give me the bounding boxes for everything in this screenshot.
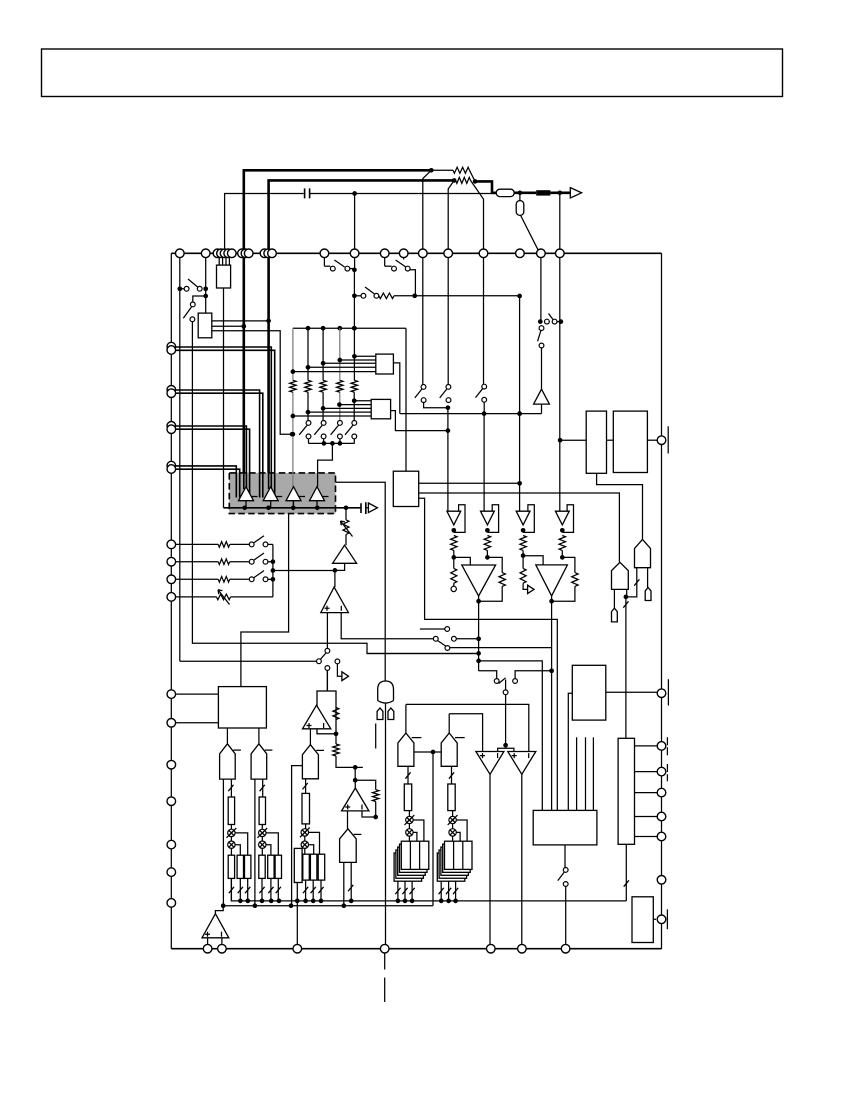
switch S5 under x340 bbox=[338, 421, 343, 426]
head amp A3 triangle bbox=[286, 487, 301, 501]
wire: y296 playback line bbox=[354, 295, 361, 297]
wire: bead to arrow bbox=[550, 192, 570, 195]
wire: thick jog to output line bbox=[475, 181, 496, 192]
cells triple at x258.8 bbox=[259, 855, 265, 878]
switch S14 bbox=[483, 253, 485, 384]
wire: PB1 left tail to crystal bbox=[613, 589, 615, 608]
level cell N at x231.4 bbox=[228, 797, 234, 825]
block U7 bbox=[613, 411, 647, 472]
wire: T7 base stem to P4 bbox=[309, 729, 311, 745]
block U6 bbox=[586, 411, 606, 473]
switch S16 vertical bbox=[539, 326, 544, 331]
resistor c1 lower bbox=[451, 568, 457, 583]
wire: pin x403.7 stub bbox=[403, 253, 405, 259]
wire: bell feed from head box bbox=[336, 482, 386, 681]
head amp A4 triangle bbox=[310, 487, 325, 501]
wire: U4 left input pin y723.3 bbox=[171, 722, 218, 724]
block U11 (reference) bbox=[632, 897, 653, 943]
junction dot head-out bbox=[518, 191, 523, 196]
wire: U11 to pin bbox=[653, 918, 656, 920]
wire: eq taps inside head box bbox=[317, 472, 319, 487]
wire: P_a top line to right amp minus bbox=[406, 704, 529, 751]
arrow: output terminal bbox=[570, 188, 581, 198]
cells triple at x228.2 bbox=[228, 855, 234, 878]
resistor R7b on x354.2 bbox=[351, 380, 357, 392]
wire: S13b riser bbox=[408, 270, 416, 296]
op-amp T8 (up) bbox=[342, 788, 369, 811]
wire: T12 output jog to bus2 bbox=[215, 906, 223, 914]
oscillator X1 (bell) bbox=[378, 681, 394, 701]
wire: PB2 right tail to crystal bbox=[647, 568, 649, 588]
pin column left (head pins doubled) bbox=[167, 342, 176, 351]
head amp A1 triangle bbox=[239, 487, 254, 501]
wire: head pin pair B y390-393 thick L bbox=[171, 390, 259, 498]
wire: U5 out3 big L to B4 bbox=[419, 498, 558, 810]
wire: P3 sense tail to bus2 bbox=[343, 862, 345, 905]
wire: head pin pair D y466-469 thick L bbox=[171, 466, 236, 498]
wire: lamp B taps bbox=[456, 820, 467, 841]
switch S4 under x323 bbox=[321, 421, 326, 426]
junction dot thick node bbox=[473, 179, 478, 184]
wire: rec-level tap to node bbox=[273, 570, 335, 572]
output amp TC2 (down) bbox=[508, 752, 536, 775]
switch S9 bbox=[249, 542, 254, 547]
wire: node A drop to rail pin bbox=[354, 194, 356, 254]
wire: c2 node to TB1 fb bbox=[485, 555, 490, 560]
buffer stage triangle at x562.3 bbox=[555, 511, 569, 525]
wire: PB1 right tail to node bbox=[626, 589, 628, 597]
junction dot W2 bbox=[452, 178, 457, 183]
driver P_a pentagon bbox=[398, 733, 414, 766]
wire: drop from thick line to pin x559.8 bbox=[559, 193, 561, 254]
crystal leg 1 bbox=[377, 708, 383, 720]
junction dot W1 bbox=[429, 168, 434, 173]
wire: U8 right to pin bbox=[606, 691, 657, 693]
block U8 bbox=[572, 665, 606, 720]
switch S18 headphone select bbox=[479, 671, 497, 679]
resistor chain upper x487.4 bbox=[484, 536, 490, 551]
driver P3 pentagon bbox=[340, 829, 357, 863]
resistor R1 (top, series) bbox=[431, 169, 453, 171]
wire: mute line to TB1 output bbox=[367, 653, 476, 655]
lamp ⊗ pair B bbox=[452, 811, 454, 817]
wire: thick record line W1 from pin x243.8 bbox=[244, 170, 431, 253]
arrow: head-amp monitor out bbox=[368, 503, 377, 513]
resistor R4 on x292.9 bbox=[290, 380, 296, 392]
switch S11 bbox=[249, 577, 254, 582]
driver P_b pentagon bbox=[441, 733, 457, 766]
wire: cell stems x228.2 bbox=[230, 878, 232, 901]
array LR_B layered cells bbox=[437, 853, 465, 881]
switch S15 row bbox=[545, 319, 550, 324]
wire: eq rail x339.8 (gray) bbox=[339, 328, 341, 380]
driver PB1 pentagon bbox=[612, 562, 629, 589]
wire: U3 output staircase to c1 input bbox=[391, 411, 448, 431]
resistor R2 (second series) bbox=[456, 177, 471, 183]
wire: T8 fb top link bbox=[355, 780, 376, 790]
lamp pair ch3 bbox=[305, 824, 307, 829]
IC outline: right edge bbox=[661, 253, 663, 948]
driver P4 pentagon bbox=[302, 745, 318, 779]
wire: U9 pin stubs bbox=[635, 745, 658, 747]
cells ch3 (four) bbox=[294, 848, 302, 882]
head amp A2 gain tick bbox=[276, 496, 283, 498]
switch SA at pin 324.4 bbox=[323, 253, 325, 266]
wire: TB2 output long bbox=[551, 596, 553, 811]
wire: P4 drive tail with skip bbox=[305, 779, 307, 794]
wire: U5 out2 long to PB1 bbox=[419, 493, 620, 562]
level cell NR_b bbox=[448, 784, 455, 811]
buffer stage triangle at x453.8 bbox=[447, 511, 461, 525]
level cell N at x262.3 bbox=[259, 797, 265, 825]
wire: LR_B stems bbox=[440, 881, 442, 901]
resistor R12 bbox=[333, 744, 339, 756]
wire: bus1 (bias) bbox=[231, 878, 626, 901]
pin column right bbox=[657, 436, 666, 445]
driver P2 pentagon bbox=[251, 744, 267, 779]
IC outline: left edge bbox=[170, 253, 172, 948]
wire: R1 out diagonal to thick node bbox=[470, 170, 476, 181]
rheostat VR2 bbox=[216, 594, 230, 600]
wire: bell center line to bottom pin bbox=[385, 703, 387, 949]
switch S2 vertical bbox=[193, 296, 206, 302]
inductor L1 (horizontal capsule) bbox=[496, 189, 514, 196]
wire: P_a tail w/ skip bbox=[407, 766, 409, 784]
wire: switch feed x540.9 bbox=[540, 253, 542, 321]
wire: staple to power pair inputs bbox=[498, 748, 514, 751]
wire: P3 drive tail with skip bbox=[350, 862, 352, 901]
wire: pin y596.9 feed bbox=[171, 596, 216, 598]
wire: T8 plus stem to P3 bbox=[347, 811, 349, 829]
wire: U7 to pin bbox=[647, 439, 657, 441]
wire: LR_A stems bbox=[397, 881, 399, 901]
block U0 (input select under pin cluster) bbox=[217, 265, 231, 288]
wire: lamp taps ch3 bbox=[309, 832, 320, 854]
wire: P1 drive tail with skip bbox=[230, 779, 232, 797]
switch S7 feed from pin drop bbox=[180, 660, 317, 662]
amp T7 with loop bbox=[317, 691, 336, 734]
wire: eq left rail x292.9 (gray) bbox=[292, 328, 294, 380]
wire: P_b tail w/ skip bbox=[451, 766, 453, 784]
wire: c1 node to TB1 bbox=[451, 555, 456, 560]
title block frame bbox=[42, 49, 783, 97]
wire: pin2 drop x179.8 bbox=[179, 253, 181, 661]
wire: eq box top edge bbox=[293, 327, 406, 329]
wire: P_a P_b link bbox=[414, 751, 441, 753]
wire: T6 minus stem to switch row bbox=[341, 613, 433, 639]
resistor R16 TB2 feedback bbox=[572, 573, 578, 587]
wire: head pin pair A y347-350 thick L bbox=[171, 347, 271, 498]
wire: U0 stems from pins bbox=[219, 257, 229, 265]
wire: U9 bottom w/ skip to bus1 bbox=[625, 844, 627, 901]
wire: lamp taps x262.3 bbox=[266, 833, 278, 855]
crystal Y2 bbox=[645, 588, 651, 601]
wire: c1 input drop bbox=[447, 408, 449, 513]
wire: U2 fan inputs bbox=[354, 355, 375, 357]
wire: loop around buffer x487.4 bbox=[487, 505, 498, 533]
wire: U4 left input pin y694.1 bbox=[171, 693, 218, 695]
wire: switch-bank common vertical bbox=[272, 544, 274, 597]
switch S10 bbox=[249, 559, 254, 564]
switch S17 with resistor bbox=[361, 293, 366, 298]
switch S19 under U10 bbox=[564, 845, 566, 868]
wire: c2 input drop bbox=[483, 414, 485, 513]
resistor R10 bbox=[218, 577, 230, 583]
output amp TC1 (down) bbox=[476, 752, 504, 775]
IC outline: top rail bbox=[171, 252, 661, 254]
resistor R9 bbox=[218, 559, 230, 565]
wire: T8 minus to fb bottom bbox=[362, 811, 376, 817]
wire: U0 tail down to preamp bus bbox=[223, 288, 225, 508]
wire: P2 drive tail with skip bbox=[262, 779, 264, 797]
resistor R5 on x308 bbox=[305, 380, 311, 392]
terminal circle c1 bbox=[451, 586, 456, 591]
wire: U6 bottom to PB2 bbox=[597, 473, 643, 539]
lamp pair at x231.4 bbox=[230, 825, 232, 830]
wire: TB1 output bbox=[478, 596, 480, 671]
wire: TC1 output to pin bbox=[489, 774, 491, 948]
wire: lamp A taps bbox=[413, 820, 424, 841]
wire: thick drop pin x243.8 to head-amp bbox=[243, 253, 246, 489]
switch S8 row bbox=[433, 636, 438, 641]
wire: T12 input stems bbox=[207, 938, 209, 949]
wire: A1 base stem bbox=[245, 501, 247, 508]
switch S6 under x354 bbox=[352, 421, 357, 426]
power amp TB1 (down) bbox=[462, 565, 496, 596]
junction dot x559.8 bbox=[558, 191, 563, 196]
wire: T7 fb resistor chain down bbox=[335, 734, 337, 744]
wire: A3 base stem bbox=[293, 501, 295, 508]
wire: U2 output to switch bus bbox=[393, 363, 399, 414]
wire: bus tap down to VR bbox=[345, 508, 347, 520]
wire: S2 out long run to lower mixer bbox=[192, 322, 476, 654]
wire: U6-U7 link bbox=[607, 439, 614, 441]
wire: node down w/ skip to divider bbox=[625, 597, 627, 738]
wire: ch3 cell stems bbox=[296, 883, 298, 949]
wire: head pin pair C y426-429 thick L bbox=[171, 426, 246, 490]
level cell N3 bbox=[302, 793, 310, 824]
pin row top bbox=[176, 249, 185, 258]
wire: U4 out stem 2 bbox=[258, 728, 260, 744]
wire: U1 out3 long hook bbox=[212, 331, 291, 434]
wire: c4 node to TB2 fb bbox=[560, 555, 565, 560]
block U5 (detector) bbox=[393, 471, 418, 506]
wire: below-rail stub (broken) bbox=[384, 953, 386, 1002]
wire: loop around buffer x562.3 bbox=[562, 505, 573, 533]
level cell NR_a bbox=[404, 784, 411, 811]
wire: cell stems x258.8 bbox=[261, 878, 263, 901]
wire: P1 sense tail to bus2 bbox=[222, 779, 224, 906]
IC outline: bottom rail bbox=[171, 948, 661, 950]
switch S1 row y288.8 bbox=[177, 286, 182, 291]
head amp A1 gain tick bbox=[251, 496, 258, 498]
resistor R6 on x323.1 bbox=[320, 380, 326, 392]
buffer stage triangle at x523.1 bbox=[516, 511, 530, 525]
wire: bus2 (signal return) bbox=[223, 905, 433, 907]
wire: R12 out to T8 node bbox=[336, 756, 363, 767]
wire: W2 branch diagonal to pin x448.2 bbox=[448, 180, 454, 253]
wire: U4 top input via jog bbox=[241, 514, 289, 687]
mux U2 upper fan block bbox=[376, 354, 394, 374]
block U4 (processor) bbox=[218, 687, 266, 728]
op-amp T12 (bottom left) bbox=[202, 914, 229, 938]
wire: U1 out2 bbox=[212, 325, 244, 327]
wire: thick bundle inside head box bbox=[236, 472, 274, 498]
head amp A3 gain tick bbox=[299, 496, 306, 498]
capacitor C2 after head bus bbox=[361, 502, 366, 514]
resistor R8 bbox=[218, 542, 230, 548]
resistor R3 (vertical capsule to pin) bbox=[516, 201, 524, 216]
wire: A4 base stem bbox=[316, 501, 318, 508]
wire: eq rail x354.2 from rail pin bbox=[354, 253, 356, 269]
wire: R3 diagonal to rail pin bbox=[521, 215, 539, 250]
wire: thick record line W2 from pin x268.6 bbox=[269, 180, 455, 253]
wire: VR1 to buffer T5 bbox=[345, 535, 347, 546]
wire: S18 common to node bbox=[505, 695, 507, 746]
wire: eq right rail into U5 bbox=[405, 328, 407, 471]
wire: loop around buffer x523.1 bbox=[523, 505, 534, 533]
wire: U4 out stem 1 bbox=[226, 728, 228, 744]
wire: level pin feed 3 bbox=[171, 578, 218, 580]
wire: S8 mid throw row to TB2 output bbox=[450, 647, 552, 649]
wire: S16 to buffer T11 bbox=[541, 348, 543, 389]
wire: U5 out1 to x519.6 bbox=[419, 482, 520, 484]
head amp A2 triangle bbox=[263, 487, 278, 501]
wire: T7 stem from S7 switch bbox=[326, 670, 328, 691]
wire: head-amp output bus bbox=[224, 507, 361, 509]
op-amp T6 bbox=[321, 587, 349, 613]
switch SB at pin 384.7 bbox=[384, 253, 386, 266]
wire: PB2 left tail w/ skip to node bbox=[626, 568, 637, 597]
ferrite bead FB1 (solid) bbox=[536, 190, 550, 195]
resistor R13 (T8 feedback) bbox=[373, 790, 379, 802]
wire: lamp taps x231.4 bbox=[235, 833, 248, 855]
driver PB2 pentagon bbox=[635, 539, 651, 567]
driver P1 pentagon bbox=[220, 744, 236, 779]
wire: U1 out1 bbox=[212, 320, 269, 322]
lamp pair at x262.3 bbox=[261, 825, 263, 830]
crystal leg 2 bbox=[388, 708, 394, 720]
buffer stage triangle at x487.4 bbox=[481, 511, 495, 525]
wire: T11 out to mix bus bbox=[541, 404, 543, 414]
wire: cap output to node A bbox=[310, 193, 497, 195]
switch S12 top right pair bbox=[422, 253, 424, 384]
wire: eq switch bus bbox=[309, 442, 355, 444]
wire: pin3 drop x205.7 into logic rect bbox=[205, 253, 207, 313]
resistor R11 on T7 loop bbox=[333, 708, 339, 720]
switch S13 bbox=[447, 253, 449, 384]
wire: T6 plus stem with switch S7 bbox=[326, 613, 328, 649]
resistor R14 bbox=[379, 293, 394, 299]
wire: U8 bottom stems bbox=[576, 737, 578, 810]
rheostat VR1 (arrow through) bbox=[343, 520, 349, 535]
wire: T5 out to node bbox=[335, 563, 345, 570]
external tick bars right side bbox=[667, 426, 669, 453]
wire: node into op-amp T6 bbox=[334, 570, 336, 587]
wire: level pin feed 2 bbox=[171, 561, 218, 563]
wire: thick drop pin x268.6 to head-amp bbox=[267, 253, 270, 489]
wire: AC-in thin net from pin 17 up and right through coupling cap bbox=[225, 194, 304, 254]
wire: R2 out diagonal down to pin x483.5 bbox=[471, 180, 484, 253]
pin row bottom bbox=[203, 944, 212, 953]
head-amp block (shaded dashed) bbox=[229, 473, 335, 514]
wire: TC2 output to pin bbox=[521, 774, 523, 948]
array LR_A layered cells bbox=[394, 853, 422, 881]
wire: P4 notch to bus2 bbox=[292, 766, 303, 906]
wire: loop around buffer x453.8 bbox=[454, 505, 465, 533]
wire: c3 input drop bbox=[519, 296, 521, 513]
buffer T11 triangle bbox=[534, 389, 550, 404]
wire: S7 monitor stub arrow bbox=[335, 659, 340, 664]
wire: TB1 out to riser x542.3 bbox=[479, 661, 543, 811]
mux U3 lower fan block bbox=[371, 399, 390, 418]
wire: level pin feed 1 bbox=[171, 543, 218, 545]
block U1 (bias select) bbox=[198, 313, 212, 338]
head amp A4 gain tick bbox=[322, 496, 329, 498]
wire: U3 fan inputs bbox=[354, 400, 371, 402]
resistor c3 lower bbox=[520, 568, 526, 583]
wire: A2 base stem bbox=[270, 501, 272, 508]
resistor chain upper x523.1 bbox=[520, 536, 526, 551]
wire: U8 left notch out bbox=[568, 693, 572, 810]
switch S3 under x308 bbox=[306, 421, 311, 426]
wire: eq rail x323.1 bbox=[322, 328, 324, 380]
wire: P_b top line to left amp plus bbox=[449, 714, 482, 752]
stub bar bbox=[375, 724, 377, 749]
wire: c3 node to TB2 bbox=[521, 553, 526, 558]
crystal Y1 bbox=[612, 608, 618, 622]
lamp ⊗ pair A bbox=[408, 811, 410, 817]
node A dot at x354.6 bbox=[352, 191, 357, 196]
wire: x559.8 drop long bbox=[559, 253, 561, 513]
resistor chain upper x453.8 bbox=[451, 536, 457, 551]
resistor R15 TB1 feedback bbox=[499, 573, 505, 587]
capacitor C1 (series coupling) bbox=[305, 188, 310, 198]
wire: link riser to bus2 bbox=[432, 752, 434, 906]
wire: thick line L1 to bead bbox=[514, 192, 536, 195]
wire: Z link bus to head-amp 4 bbox=[318, 443, 333, 486]
buffer T5 triangle bbox=[333, 545, 357, 563]
power amp TB2 (down) bbox=[536, 565, 568, 596]
wire: open stub row bbox=[420, 628, 445, 630]
wire: W1 branch diagonal to pin x422.8 bbox=[423, 170, 432, 253]
resistor chain upper x562.3 bbox=[559, 536, 565, 551]
wire: P2 sense tail to bus2 bbox=[254, 779, 256, 906]
wire: T8 apex node bbox=[354, 767, 356, 780]
resistor R7 on x339.8 bbox=[337, 380, 343, 392]
wire: mix bus y413.5 bbox=[400, 413, 542, 415]
divider U9 (tall) bbox=[618, 738, 634, 844]
block U10 (mode) bbox=[533, 810, 597, 845]
wire: eq rail x308 bbox=[307, 328, 309, 380]
arrow stub c3 bbox=[523, 583, 528, 589]
wire: y440 link to U6 bbox=[560, 439, 586, 441]
